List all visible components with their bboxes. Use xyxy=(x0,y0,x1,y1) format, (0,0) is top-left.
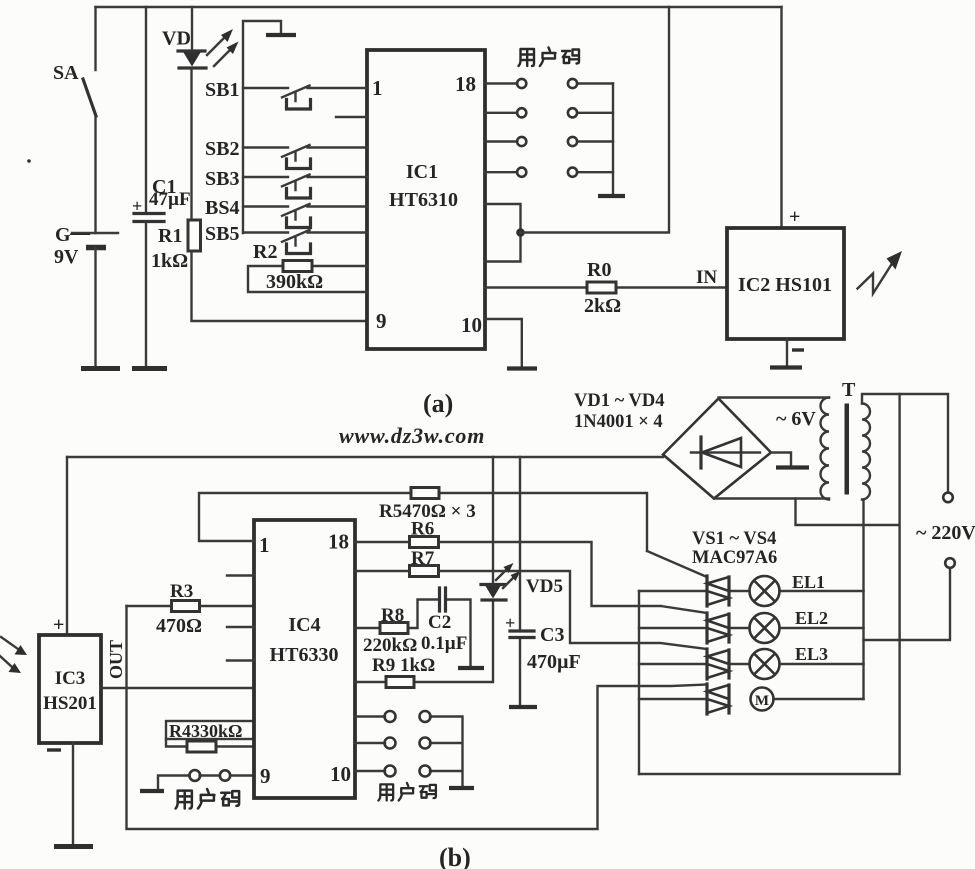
svg-text:IC3: IC3 xyxy=(55,668,86,689)
svg-text:390kΩ: 390kΩ xyxy=(266,271,323,293)
svg-text:R1: R1 xyxy=(158,225,182,247)
svg-text:VD: VD xyxy=(162,28,191,50)
svg-text:0.1µF: 0.1µF xyxy=(421,633,467,654)
svg-text:220kΩ: 220kΩ xyxy=(363,635,417,656)
svg-text:+: + xyxy=(505,613,515,633)
svg-text:1: 1 xyxy=(372,76,383,100)
svg-text:EL2: EL2 xyxy=(795,608,828,628)
svg-text:SB5: SB5 xyxy=(205,223,239,245)
svg-text:SB1: SB1 xyxy=(205,79,239,101)
svg-text:C2: C2 xyxy=(428,612,451,633)
svg-text:IC1: IC1 xyxy=(406,161,438,183)
svg-text:IC4: IC4 xyxy=(288,614,320,636)
svg-text:18: 18 xyxy=(328,530,349,554)
svg-text:9: 9 xyxy=(376,309,387,333)
svg-text:470Ω: 470Ω xyxy=(156,615,202,637)
svg-text:18: 18 xyxy=(455,72,476,96)
svg-text:470µF: 470µF xyxy=(527,651,581,673)
svg-text:R2: R2 xyxy=(253,241,277,263)
svg-text:(b): (b) xyxy=(439,843,471,869)
svg-text:9: 9 xyxy=(260,764,271,788)
svg-text:+: + xyxy=(789,206,800,228)
svg-text:1N4001 × 4: 1N4001 × 4 xyxy=(574,412,663,432)
svg-text:OUT: OUT xyxy=(106,640,126,679)
svg-text:VD1 ~ VD4: VD1 ~ VD4 xyxy=(574,391,664,411)
svg-text:G: G xyxy=(55,224,71,246)
svg-text:BS4: BS4 xyxy=(205,197,239,219)
svg-text:1kΩ: 1kΩ xyxy=(151,250,188,272)
svg-text:C3: C3 xyxy=(540,624,564,646)
svg-text:M: M xyxy=(755,693,769,709)
svg-text:SA: SA xyxy=(53,62,79,84)
svg-text:+: + xyxy=(132,196,142,216)
svg-text:EL1: EL1 xyxy=(792,572,825,592)
svg-text:SB3: SB3 xyxy=(205,168,239,190)
svg-text:10: 10 xyxy=(461,313,482,337)
svg-text:MAC97A6: MAC97A6 xyxy=(692,548,777,568)
svg-text:HT6330: HT6330 xyxy=(270,644,339,666)
svg-text:~ 6V: ~ 6V xyxy=(776,408,816,430)
svg-text:R0: R0 xyxy=(587,259,611,281)
svg-text:IC2 HS101: IC2 HS101 xyxy=(738,274,832,296)
svg-text:EL3: EL3 xyxy=(795,644,828,664)
svg-text:(a): (a) xyxy=(423,389,453,418)
svg-text:R8: R8 xyxy=(381,605,404,626)
svg-text:VD5: VD5 xyxy=(526,576,563,597)
svg-text:10: 10 xyxy=(330,762,351,786)
svg-text:T: T xyxy=(842,379,856,401)
svg-text:R4330kΩ: R4330kΩ xyxy=(169,721,242,741)
svg-text:R9 1kΩ: R9 1kΩ xyxy=(372,655,435,676)
svg-text:+: + xyxy=(53,614,64,636)
svg-text:1: 1 xyxy=(259,533,270,557)
svg-text:~ 220V: ~ 220V xyxy=(916,522,975,544)
svg-text:R3: R3 xyxy=(170,581,193,602)
svg-text:47µF: 47µF xyxy=(149,189,191,210)
svg-text:R6: R6 xyxy=(411,519,434,540)
svg-text:9V: 9V xyxy=(54,246,79,268)
svg-text:HT6310: HT6310 xyxy=(389,189,458,211)
svg-text:R7: R7 xyxy=(411,548,435,569)
svg-text:VS1 ~ VS4: VS1 ~ VS4 xyxy=(692,529,776,549)
svg-text:—: — xyxy=(69,222,91,244)
svg-text:www.dz3w.com: www.dz3w.com xyxy=(339,423,485,448)
svg-text:HS201: HS201 xyxy=(43,693,97,714)
svg-text:IN: IN xyxy=(696,267,717,288)
svg-text:2kΩ: 2kΩ xyxy=(584,295,621,317)
svg-text:SB2: SB2 xyxy=(205,138,239,160)
